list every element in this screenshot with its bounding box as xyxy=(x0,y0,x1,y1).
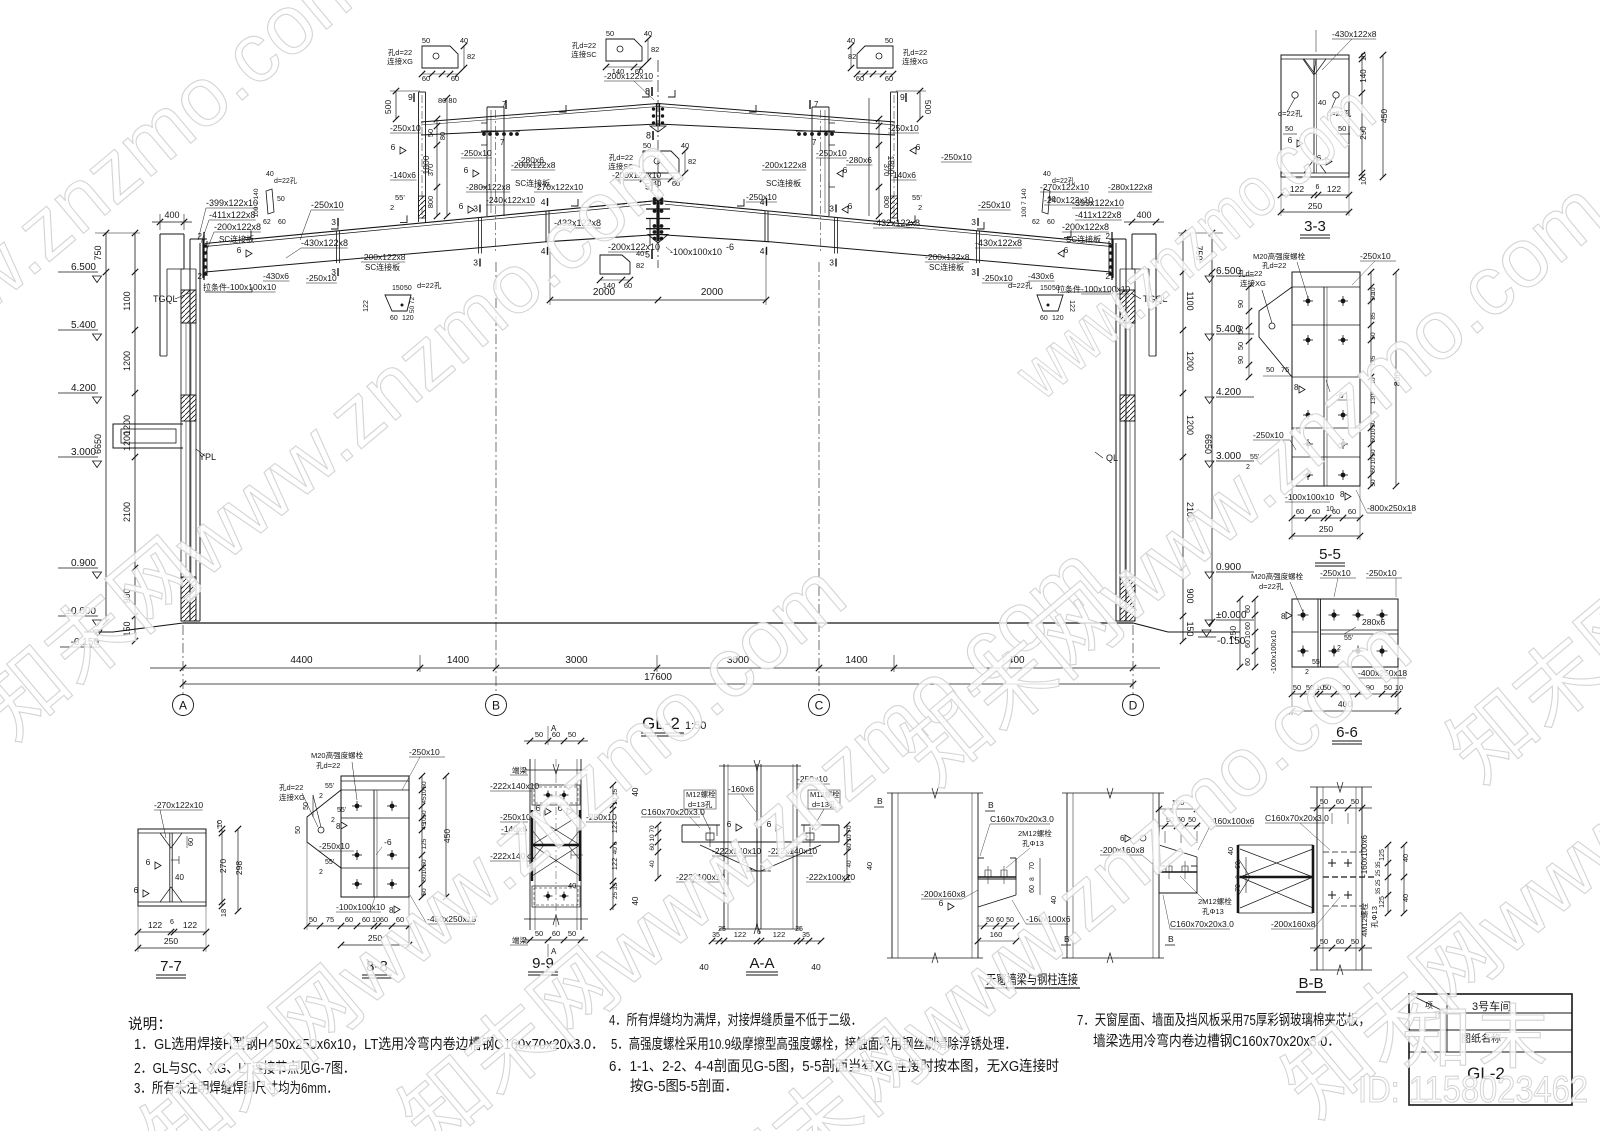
svg-text:-250x10: -250x10 xyxy=(978,200,1011,210)
svg-text:3: 3 xyxy=(971,267,976,277)
svg-text:2: 2 xyxy=(198,232,203,241)
TC right wedge gusset xyxy=(1159,845,1197,857)
svg-text:40: 40 xyxy=(1226,847,1235,855)
svg-text:40: 40 xyxy=(847,36,855,45)
svg-text:70: 70 xyxy=(649,825,656,833)
svg-text:3: 3 xyxy=(829,203,834,213)
svg-text:-250x10: -250x10 xyxy=(1360,251,1391,261)
svg-text:750: 750 xyxy=(93,245,103,260)
svg-text:1200: 1200 xyxy=(1185,415,1195,435)
svg-text:50: 50 xyxy=(1370,479,1377,487)
A-A left dims xyxy=(657,825,659,878)
svg-text:连接SC: 连接SC xyxy=(571,49,597,59)
svg-text:-280x122x8: -280x122x8 xyxy=(1108,182,1153,192)
svg-text:2M12螺栓: 2M12螺栓 xyxy=(1198,896,1232,906)
B-B bolts xyxy=(1328,862,1336,864)
svg-text:60: 60 xyxy=(1312,507,1320,516)
svg-text:1400: 1400 xyxy=(447,655,470,666)
svg-text:140: 140 xyxy=(1359,69,1368,83)
svg-text:270: 270 xyxy=(218,859,228,873)
svg-text:3: 3 xyxy=(473,203,478,213)
svg-text:6: 6 xyxy=(146,857,151,867)
right dim chain xyxy=(1182,233,1184,641)
svg-text:A: A xyxy=(179,699,187,713)
svg-text:2: 2 xyxy=(1106,232,1111,241)
svg-text:孔d=22: 孔d=22 xyxy=(279,783,303,792)
ridge gusset xyxy=(648,235,668,244)
svg-text:2: 2 xyxy=(198,272,203,281)
svg-text:10: 10 xyxy=(649,834,656,842)
9-9 top bolt plate xyxy=(532,785,580,805)
svg-text:500: 500 xyxy=(923,100,933,114)
svg-text:1100: 1100 xyxy=(122,291,132,310)
ridge segment bottom flange xyxy=(546,235,658,242)
svg-text:说明：: 说明： xyxy=(128,1016,172,1033)
svg-text:7: 7 xyxy=(502,100,507,109)
svg-text:80: 80 xyxy=(438,132,447,140)
right column H-section xyxy=(1125,239,1127,621)
svg-text:90: 90 xyxy=(1236,300,1245,308)
bottom dim chains xyxy=(150,667,1160,669)
svg-text:连接XG: 连接XG xyxy=(387,56,413,66)
A-A beam flange line xyxy=(682,841,839,843)
svg-text:孔d=22: 孔d=22 xyxy=(388,48,412,57)
svg-text:6: 6 xyxy=(939,898,944,908)
skylight box post left xyxy=(486,107,488,216)
svg-text:SC连接板: SC连接板 xyxy=(1066,234,1101,244)
svg-text:55': 55' xyxy=(325,859,334,866)
right wall strip xyxy=(1119,269,1121,621)
svg-text:-270x122x10: -270x122x10 xyxy=(1040,182,1089,192)
svg-text:C160x70x20x3.0: C160x70x20x3.0 xyxy=(990,814,1054,824)
A-A bolts M12 xyxy=(706,833,714,840)
svg-text:60: 60 xyxy=(856,74,864,83)
svg-text:10: 10 xyxy=(846,834,853,842)
svg-text:4.200: 4.200 xyxy=(71,383,96,394)
detail 5-5 column splice elevation xyxy=(1292,272,1360,486)
svg-text:M20高强度螺栓: M20高强度螺栓 xyxy=(311,750,364,760)
skylight rafter xyxy=(421,104,895,123)
svg-text:-250x10: -250x10 xyxy=(409,747,440,757)
svg-text:50: 50 xyxy=(1351,937,1359,946)
svg-text:40: 40 xyxy=(1401,894,1410,902)
main rafter left: bottom flange xyxy=(205,242,546,272)
svg-text:-200x122x8: -200x122x8 xyxy=(214,222,261,232)
title block frame xyxy=(1409,994,1572,1105)
svg-text:-250x10: -250x10 xyxy=(311,200,344,210)
svg-text:40: 40 xyxy=(811,962,821,972)
svg-text:YPL: YPL xyxy=(199,452,216,462)
left parapet wall xyxy=(160,233,184,235)
svg-text:3-3: 3-3 xyxy=(1304,218,1326,235)
svg-text:d=22孔: d=22孔 xyxy=(1259,582,1284,591)
main rafter right: bottom flange xyxy=(770,242,1111,272)
svg-text:50: 50 xyxy=(1052,285,1060,292)
svg-text:122: 122 xyxy=(734,930,747,939)
svg-text:400: 400 xyxy=(1136,210,1151,220)
svg-text:-280x122x8: -280x122x8 xyxy=(466,182,511,192)
A-A bottom dims xyxy=(712,940,821,942)
skylight box post right xyxy=(811,107,813,216)
svg-text:-200x122x8: -200x122x8 xyxy=(1062,222,1109,232)
svg-text:端梁: 端梁 xyxy=(512,935,527,945)
svg-text:55': 55' xyxy=(395,193,405,202)
svg-text:-100x100x10: -100x100x10 xyxy=(670,247,722,257)
purlin clips on rafter xyxy=(244,230,251,237)
5-5 right dim chain xyxy=(1370,272,1372,486)
svg-text:2: 2 xyxy=(390,203,394,212)
right eave end-plate xyxy=(1111,239,1113,278)
rafter splice marks xyxy=(336,231,338,263)
svg-text:60: 60 xyxy=(552,929,560,938)
svg-text:100 7 140: 100 7 140 xyxy=(1021,188,1028,217)
A-A right dims xyxy=(846,825,848,878)
B-B hidden channel dashes xyxy=(1323,851,1362,853)
9-9 bottom bolt plate xyxy=(532,886,580,907)
svg-text:60: 60 xyxy=(1245,605,1252,613)
svg-text:50: 50 xyxy=(1236,326,1245,334)
svg-text:125: 125 xyxy=(1379,896,1386,908)
left wall strip with hatched masonry xyxy=(180,269,182,621)
9-9 black flanges + X brace xyxy=(531,810,533,881)
svg-text:55': 55' xyxy=(337,807,346,814)
skylight post dims left xyxy=(395,91,397,119)
svg-text:60: 60 xyxy=(1348,507,1356,516)
6-6 left dims xyxy=(1254,599,1256,667)
svg-text:-411x122x8: -411x122x8 xyxy=(209,210,255,220)
svg-text:-6: -6 xyxy=(384,837,392,847)
svg-text:ID: 1158023462: ID: 1158023462 xyxy=(1358,1069,1588,1110)
svg-text:-250x10: -250x10 xyxy=(306,273,337,283)
svg-text:40: 40 xyxy=(644,29,652,38)
svg-text:10: 10 xyxy=(1245,631,1252,639)
svg-text:孔d=22: 孔d=22 xyxy=(1238,269,1262,278)
svg-text:9: 9 xyxy=(900,92,905,102)
svg-text:55': 55' xyxy=(325,783,334,790)
9-9 dims bottom xyxy=(524,939,588,941)
svg-text:2: 2 xyxy=(319,793,323,800)
svg-text:-250x10: -250x10 xyxy=(461,148,492,158)
svg-text:-411x122x8: -411x122x8 xyxy=(1075,210,1121,220)
svg-text:M20高强度螺栓: M20高强度螺栓 xyxy=(1253,251,1306,261)
svg-text:3: 3 xyxy=(829,258,834,268)
TC right top dims xyxy=(1159,808,1200,810)
svg-text:55': 55' xyxy=(912,193,922,202)
detail A-A ridge post connection xyxy=(723,764,725,929)
tie rod at eave xyxy=(205,291,252,293)
left column H-section xyxy=(189,239,191,621)
svg-text:d=22孔: d=22孔 xyxy=(1008,281,1033,290)
svg-text:60: 60 xyxy=(649,843,656,851)
svg-text:50: 50 xyxy=(1320,937,1328,946)
svg-text:A: A xyxy=(551,724,557,733)
svg-text:62: 62 xyxy=(1032,219,1040,226)
plate detail below ridge xyxy=(600,255,630,274)
svg-text:-240x122x10: -240x122x10 xyxy=(486,195,535,205)
svg-text:2: 2 xyxy=(331,817,335,824)
svg-text:60: 60 xyxy=(186,838,195,846)
9-9 right dim chain xyxy=(612,785,614,910)
svg-text:40: 40 xyxy=(1401,854,1410,862)
svg-text:40: 40 xyxy=(846,860,853,868)
detail 6-6 base plate plan xyxy=(1292,599,1398,667)
svg-text:-250x10: -250x10 xyxy=(390,123,421,133)
svg-text:-140x6: -140x6 xyxy=(390,170,416,180)
svg-text:122: 122 xyxy=(610,858,619,871)
svg-text:-100x100x10: -100x100x10 xyxy=(227,282,276,292)
svg-text:-250x10: -250x10 xyxy=(941,152,972,162)
svg-text:孔d=22: 孔d=22 xyxy=(1262,261,1286,270)
svg-text:7-7: 7-7 xyxy=(160,958,182,975)
svg-text:40: 40 xyxy=(699,962,709,972)
svg-text:10: 10 xyxy=(1359,53,1368,61)
small plate right eave xyxy=(1042,189,1050,214)
svg-text:75: 75 xyxy=(1281,365,1289,374)
svg-text:-399x122x10: -399x122x10 xyxy=(206,198,258,208)
svg-text:4M12螺栓: 4M12螺栓 xyxy=(1359,903,1369,937)
7-7 bottom dims xyxy=(138,931,206,933)
left eave end-plate connection xyxy=(202,239,204,278)
svg-text:90: 90 xyxy=(1236,356,1245,364)
svg-text:1200: 1200 xyxy=(122,351,132,371)
B-B top dims xyxy=(1310,807,1372,809)
8-8 bolts xyxy=(355,804,360,809)
svg-text:d=22孔: d=22孔 xyxy=(274,177,297,185)
svg-text:250: 250 xyxy=(164,936,178,946)
svg-text:-430x6: -430x6 xyxy=(263,271,289,281)
svg-text:-250x10: -250x10 xyxy=(1366,568,1397,578)
svg-text:60: 60 xyxy=(422,74,430,83)
svg-text:-430x6: -430x6 xyxy=(1028,271,1054,281)
svg-text:122: 122 xyxy=(363,300,370,312)
grid bubbles A B C D xyxy=(173,695,194,716)
svg-text:6: 6 xyxy=(464,165,469,175)
svg-text:10: 10 xyxy=(1370,457,1377,465)
plate detail XG left xyxy=(422,46,458,68)
svg-text:6: 6 xyxy=(391,142,396,152)
svg-text:82: 82 xyxy=(688,157,696,166)
svg-text:50: 50 xyxy=(426,129,435,137)
svg-text:400: 400 xyxy=(164,210,179,220)
svg-text:D: D xyxy=(1129,699,1138,713)
svg-text:6: 6 xyxy=(459,201,464,211)
svg-text:50: 50 xyxy=(1370,449,1377,457)
svg-text:35 25: 35 25 xyxy=(1376,879,1382,895)
svg-text:SC连接板: SC连接板 xyxy=(219,234,254,244)
5-5 XG gusset notch xyxy=(1259,287,1292,377)
svg-text:40: 40 xyxy=(460,36,468,45)
svg-text:6: 6 xyxy=(237,245,242,255)
trapezoid plate left eave xyxy=(385,295,411,311)
svg-text:-270x122x10: -270x122x10 xyxy=(154,800,203,810)
svg-text:TGQL: TGQL xyxy=(153,294,178,304)
svg-text:50: 50 xyxy=(421,810,428,818)
8-8 left dims xyxy=(312,795,314,817)
svg-text:50: 50 xyxy=(277,196,285,203)
svg-text:-432x122x8: -432x122x8 xyxy=(873,218,920,228)
svg-text:100 7 140: 100 7 140 xyxy=(253,188,260,217)
skylight outer post right xyxy=(890,92,892,222)
svg-text:6: 6 xyxy=(757,929,761,936)
svg-text:40: 40 xyxy=(266,171,274,178)
svg-text:2100: 2100 xyxy=(122,502,132,522)
skylight ridge splice xyxy=(656,103,658,126)
svg-text:B: B xyxy=(988,800,994,810)
svg-text:122: 122 xyxy=(773,930,786,939)
5-5 bottom dims xyxy=(1292,517,1360,519)
main rafter right: top flange xyxy=(658,201,1111,244)
svg-text:5-5: 5-5 xyxy=(1319,546,1341,563)
svg-text:18: 18 xyxy=(219,909,228,917)
TC left view column xyxy=(891,793,893,958)
svg-text:3: 3 xyxy=(331,217,336,227)
svg-text:40: 40 xyxy=(175,873,184,882)
TC left C-channel bracket xyxy=(978,858,1016,879)
svg-text:-200x122x8: -200x122x8 xyxy=(361,252,406,262)
A-A C channels xyxy=(681,825,683,842)
svg-text:2M12螺栓: 2M12螺栓 xyxy=(1018,828,1052,838)
right level marks xyxy=(1205,276,1214,283)
svg-text:6: 6 xyxy=(170,919,174,926)
svg-text:25 35: 25 35 xyxy=(1376,861,1382,877)
svg-text:250: 250 xyxy=(1228,626,1238,640)
svg-text:60: 60 xyxy=(1245,640,1252,648)
plate detail SC mid-center xyxy=(643,151,679,173)
svg-text:-250x10: -250x10 xyxy=(816,148,847,158)
svg-text:6650: 6650 xyxy=(93,434,103,454)
svg-text:4: 4 xyxy=(760,246,765,256)
ridge splice plates xyxy=(646,208,670,210)
svg-text:45: 45 xyxy=(421,822,428,830)
svg-text:7: 7 xyxy=(500,138,505,147)
svg-text:-250x10: -250x10 xyxy=(1320,568,1351,578)
svg-text:连接XG: 连接XG xyxy=(1240,278,1266,288)
B-B beam plan with X bracing xyxy=(1237,845,1240,913)
svg-text:-100x100x10: -100x100x10 xyxy=(1269,630,1278,673)
svg-text:800: 800 xyxy=(882,196,891,209)
TC right C-channel bracket xyxy=(1159,866,1197,893)
svg-text:82: 82 xyxy=(651,45,659,54)
svg-text:孔Φ13: 孔Φ13 xyxy=(1370,906,1379,928)
detail 3-3 column section xyxy=(1281,55,1349,177)
ground line xyxy=(183,622,1133,624)
svg-text:-200x160x8: -200x160x8 xyxy=(1271,919,1316,929)
svg-text:孔d=22: 孔d=22 xyxy=(316,761,340,770)
svg-text:拉条件: 拉条件 xyxy=(203,282,227,292)
svg-text:-250x10: -250x10 xyxy=(888,123,919,133)
trapezoid plate right eave xyxy=(1037,295,1063,311)
B-B right dims xyxy=(1387,845,1389,913)
svg-text:125: 125 xyxy=(1379,849,1386,861)
svg-text:800: 800 xyxy=(426,196,435,209)
svg-text:-200x122x8: -200x122x8 xyxy=(762,160,807,170)
svg-text:0.900: 0.900 xyxy=(71,558,96,569)
svg-text:2: 2 xyxy=(319,869,323,876)
right parapet wall xyxy=(1132,233,1156,235)
svg-text:孔Φ13: 孔Φ13 xyxy=(1022,839,1044,848)
svg-text:2: 2 xyxy=(918,203,922,212)
svg-text:125: 125 xyxy=(421,838,428,849)
svg-text:50: 50 xyxy=(535,929,543,938)
svg-text:140: 140 xyxy=(603,281,616,290)
svg-text:122: 122 xyxy=(148,920,162,930)
svg-text:1400: 1400 xyxy=(845,655,868,666)
svg-text:C160x70x20x3.0: C160x70x20x3.0 xyxy=(1170,919,1234,929)
svg-text:-240x122x10: -240x122x10 xyxy=(1044,195,1093,205)
svg-text:40: 40 xyxy=(681,141,689,150)
svg-text:4．所有焊缝均为满焊，对接焊缝质量不低于二级．: 4．所有焊缝均为满焊，对接焊缝质量不低于二级． xyxy=(609,1012,862,1029)
svg-text:50: 50 xyxy=(1236,342,1245,350)
svg-text:SC连接板: SC连接板 xyxy=(766,178,801,188)
8-8 gusset notch left xyxy=(307,790,341,868)
svg-text:-250x10: -250x10 xyxy=(746,192,777,202)
svg-text:75: 75 xyxy=(326,915,334,924)
svg-text:7: 7 xyxy=(814,100,819,109)
svg-text:50: 50 xyxy=(1351,797,1359,806)
svg-text:60: 60 xyxy=(846,843,853,851)
svg-text:50: 50 xyxy=(1266,365,1274,374)
svg-text:60: 60 xyxy=(278,219,286,226)
svg-text:60: 60 xyxy=(451,74,459,83)
svg-text:-160x100x6: -160x100x6 xyxy=(1360,835,1369,877)
svg-text:50: 50 xyxy=(885,36,893,45)
svg-text:-250x10: -250x10 xyxy=(319,841,350,851)
svg-text:8: 8 xyxy=(1281,612,1286,621)
svg-text:3: 3 xyxy=(971,217,976,227)
svg-text:B-B: B-B xyxy=(1298,975,1323,992)
svg-text:2000: 2000 xyxy=(701,287,724,298)
svg-text:-800x250x18: -800x250x18 xyxy=(1367,503,1416,513)
svg-text:-6: -6 xyxy=(726,242,734,252)
svg-text:60: 60 xyxy=(1336,797,1344,806)
svg-text:-200x122x8: -200x122x8 xyxy=(511,160,556,170)
svg-text:孔d=22: 孔d=22 xyxy=(572,41,596,50)
6-6 bolts xyxy=(1300,612,1305,617)
8-8 right dim chain xyxy=(421,776,423,897)
svg-text:40 6: 40 6 xyxy=(612,841,619,854)
left level marks xyxy=(93,276,102,283)
TC left bottom dims xyxy=(978,925,1016,927)
svg-text:1200: 1200 xyxy=(1185,351,1195,371)
5-5 bolts xyxy=(1306,299,1311,304)
svg-text:60: 60 xyxy=(1047,219,1055,226)
svg-text:C: C xyxy=(815,699,824,713)
svg-text:连接XG: 连接XG xyxy=(902,56,928,66)
svg-text:-140x6: -140x6 xyxy=(890,170,916,180)
detail 8-8 end plate elevation xyxy=(341,776,409,897)
detail 9-9 skylight post elevation xyxy=(529,759,531,930)
svg-text:孔d=22: 孔d=22 xyxy=(903,48,927,57)
svg-text:140: 140 xyxy=(612,67,625,76)
svg-text:8: 8 xyxy=(1340,490,1345,499)
svg-text:10: 10 xyxy=(1370,287,1377,295)
6-6 bottom dims xyxy=(1292,693,1398,695)
svg-text:60: 60 xyxy=(635,67,643,76)
svg-text:150: 150 xyxy=(392,285,404,292)
svg-text:62: 62 xyxy=(263,219,271,226)
svg-text:250: 250 xyxy=(1319,524,1333,534)
svg-text:-280x6: -280x6 xyxy=(846,155,872,165)
svg-text:C160x70x20x3.0: C160x70x20x3.0 xyxy=(641,807,705,817)
svg-text:C160x70x20x3.0: C160x70x20x3.0 xyxy=(1265,813,1329,823)
svg-text:50: 50 xyxy=(535,730,543,739)
svg-text:±0.000: ±0.000 xyxy=(1216,610,1247,621)
section marks 2 at eaves xyxy=(203,232,205,240)
B-B column band xyxy=(1316,787,1318,970)
svg-text:60: 60 xyxy=(1336,937,1344,946)
3-3 right dims xyxy=(1361,55,1363,177)
svg-text:50: 50 xyxy=(421,781,428,789)
